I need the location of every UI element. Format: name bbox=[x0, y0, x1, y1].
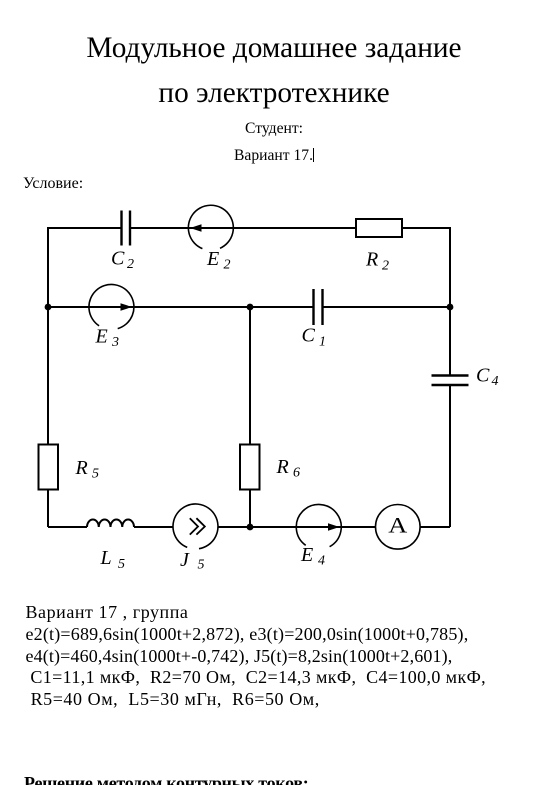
svg-text:J: J bbox=[180, 549, 190, 571]
node dot left bbox=[45, 304, 52, 311]
resistor R2 bbox=[356, 219, 402, 237]
svg-text:E: E bbox=[206, 248, 219, 270]
inductor L5 bbox=[87, 520, 134, 528]
svg-text:2: 2 bbox=[224, 258, 231, 273]
wire second row right bbox=[323, 306, 451, 308]
svg-text:2: 2 bbox=[127, 257, 134, 272]
svg-text:1: 1 bbox=[319, 335, 326, 350]
svg-text:5: 5 bbox=[92, 467, 99, 482]
svg-text:5: 5 bbox=[118, 557, 125, 572]
svg-text:4: 4 bbox=[492, 374, 499, 389]
svg-text:А: А bbox=[388, 513, 408, 538]
wire top-left segment bbox=[48, 228, 122, 307]
svg-text:4: 4 bbox=[318, 554, 325, 569]
svg-text:2: 2 bbox=[382, 259, 389, 274]
svg-text:C: C bbox=[111, 248, 125, 270]
wire left vertical lower bbox=[47, 490, 49, 528]
resistor R5 bbox=[39, 445, 59, 490]
capacitor C1 bbox=[314, 289, 323, 325]
node dot right bbox=[447, 304, 454, 311]
chevron 1 bbox=[190, 518, 198, 534]
wire second row left bbox=[48, 306, 313, 308]
node dot middle bbox=[247, 304, 254, 311]
svg-text:C: C bbox=[302, 325, 316, 347]
resistor R6 bbox=[240, 445, 260, 490]
uslovie bbox=[23, 174, 83, 193]
wire right lower bbox=[449, 386, 451, 528]
wire left vertical upper bbox=[47, 307, 49, 445]
wire top mid segment bbox=[130, 227, 356, 229]
svg-text:E: E bbox=[300, 544, 313, 566]
EMF source E3 (arrow right) bbox=[89, 284, 134, 328]
condition text block bbox=[26, 602, 487, 712]
EMF source E4 (arrow right) bbox=[296, 504, 341, 546]
EMF source E2 (arrow left) bbox=[188, 205, 233, 248]
solution heading (cut off at page bottom) bbox=[24, 772, 308, 785]
svg-text:5: 5 bbox=[198, 558, 205, 573]
wire bottom J5 to A bbox=[218, 526, 376, 528]
svg-text:L: L bbox=[100, 547, 112, 569]
chevron 2 bbox=[196, 518, 204, 534]
svg-text:R: R bbox=[365, 249, 378, 271]
student lines bbox=[0, 115, 548, 169]
svg-text:E: E bbox=[95, 326, 108, 348]
wire middle vertical lower bbox=[249, 490, 251, 528]
wire right upper bbox=[449, 307, 451, 375]
node dot bottom bbox=[247, 524, 254, 531]
svg-text:C: C bbox=[476, 365, 490, 387]
capacitor C2 bbox=[122, 211, 131, 246]
wire middle vertical upper bbox=[249, 307, 251, 445]
svg-text:3: 3 bbox=[111, 335, 119, 350]
wire top right segment bbox=[402, 228, 450, 307]
ammeter A bbox=[376, 505, 421, 550]
svg-text:6: 6 bbox=[293, 466, 300, 481]
svg-text:R: R bbox=[75, 457, 88, 479]
wire bottom left bbox=[48, 526, 87, 528]
capacitor C4 bbox=[432, 376, 469, 386]
wire bottom A to right bbox=[420, 526, 451, 528]
wire bottom between L5 and J5 bbox=[134, 526, 173, 528]
current source J5 bbox=[173, 504, 218, 549]
title bbox=[0, 26, 548, 116]
svg-text:R: R bbox=[276, 456, 289, 478]
